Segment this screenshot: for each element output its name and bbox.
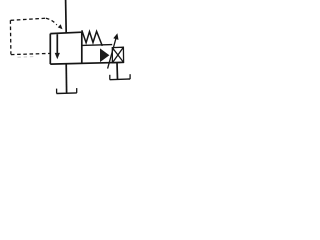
tank T2 left tick <box>109 75 111 80</box>
adjustment arrow shaft <box>108 39 116 69</box>
pilot dashed curve <box>46 18 57 25</box>
wire long bottom line <box>50 62 124 64</box>
wire drain from throttle <box>116 63 119 80</box>
flow-path arrow inside valve <box>56 34 58 54</box>
wire P supply line top <box>65 0 68 33</box>
wire channel top line <box>82 44 112 47</box>
valve body V1 right edge <box>81 32 83 62</box>
X diagonal 2 <box>112 47 123 63</box>
pilot arrowhead <box>58 24 63 29</box>
spring <box>82 30 103 46</box>
tank T1 line <box>57 92 77 95</box>
flow direction triangle (filled) <box>100 48 109 62</box>
pilot dashed bottom line <box>11 53 50 54</box>
valve body V1 left edge <box>49 34 51 65</box>
pilot dashed top line <box>11 18 46 20</box>
faint scan ghost dashes <box>18 56 36 59</box>
tank T1 left tick <box>56 89 58 94</box>
throttle box with X <box>112 47 123 63</box>
tank T1 right tick <box>76 88 78 93</box>
valve body V1 top edge <box>50 32 82 33</box>
wire drain from valve <box>65 64 67 93</box>
tank T2 line <box>110 78 131 81</box>
X diagonal 1 <box>112 48 123 63</box>
tank T2 right tick <box>129 74 131 79</box>
pilot dashed left line <box>9 20 12 54</box>
hydraulic relief-valve schematic <box>0 0 158 107</box>
adjustment arrowhead <box>113 33 118 40</box>
flow-path arrowhead <box>55 53 60 59</box>
